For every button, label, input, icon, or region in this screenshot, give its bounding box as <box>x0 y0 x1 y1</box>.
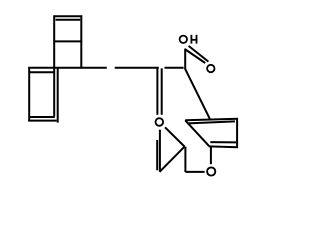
right ring right vertical <box>236 119 238 148</box>
right ring left diagonal <box>185 120 209 146</box>
right ring outer bottom <box>209 145 238 148</box>
chain horizontal seg3 <box>165 67 184 69</box>
V2 vertical down <box>184 147 186 172</box>
C=O lower line <box>185 49 206 63</box>
top ring top outer <box>53 15 82 17</box>
bond bottom O to ring <box>210 147 212 164</box>
wire <box>0 0 265 192</box>
alkene vertical left <box>156 68 158 115</box>
bottom O label <box>207 167 215 175</box>
lower rect inner bottom <box>29 116 55 118</box>
chain horizontal seg2 <box>115 67 159 69</box>
ester O label <box>156 118 164 126</box>
below-O inner vertical <box>156 140 158 170</box>
lower rect outer right <box>57 68 59 123</box>
carboxyl vertical <box>184 49 186 69</box>
diagonal bottom vertex to V2 <box>160 147 185 172</box>
C=O upper line <box>189 46 209 62</box>
top ring top inner <box>56 19 81 21</box>
carbonyl O label <box>207 65 214 72</box>
below-O main vertical <box>159 130 161 172</box>
top ring right vertical <box>80 15 82 68</box>
right ring inner bottom <box>210 141 236 143</box>
top ring left vertical <box>53 15 55 116</box>
lower rect outer bottom <box>28 120 56 122</box>
right ring outer top <box>185 119 238 121</box>
right ring inner top <box>188 121 235 123</box>
lower rect left vertical <box>28 67 30 121</box>
alkene vertical right <box>161 68 163 115</box>
lower rect inner top <box>30 71 55 73</box>
OH label H glyph <box>191 35 198 44</box>
bottom horizontal to O <box>185 171 204 173</box>
top ring middle bar <box>53 40 82 42</box>
long diagonal V1 to ring <box>185 68 210 119</box>
OH label O glyph <box>180 36 187 43</box>
diagonal O to V2 <box>165 127 185 146</box>
chain horizontal seg1 <box>28 67 107 69</box>
